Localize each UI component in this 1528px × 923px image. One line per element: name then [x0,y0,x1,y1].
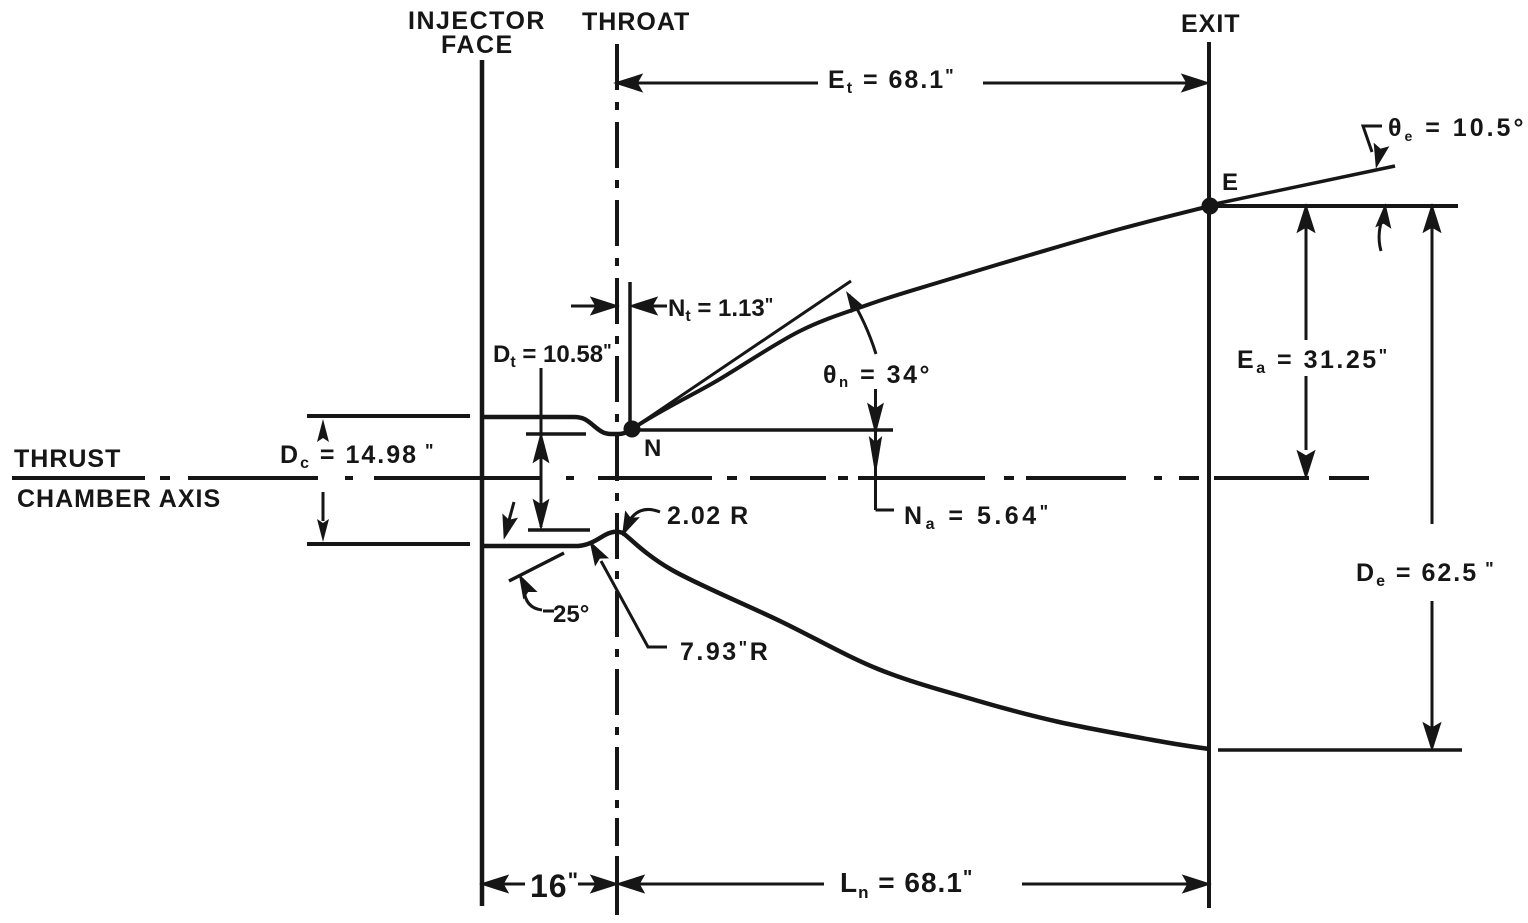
exit bottom extension line [1218,748,1462,752]
dimension 16" [484,877,615,891]
2.02R leader [619,509,660,534]
dimension D_e = 62.5" [1425,208,1439,747]
7.93"R leader [587,542,667,647]
dimension D_c = 14.98" [317,419,329,542]
dimension D_t = 10.58" [526,432,586,436]
svg-text:THROAT: THROAT [582,8,690,36]
theta_e leader [1363,126,1386,165]
throat axis line (dash-dot vertical) [615,44,619,915]
chamber bottom wall and bell contour [482,532,1209,749]
N horizontal reference line [632,428,893,432]
D_c bottom extension line [307,542,470,546]
svg-text:E: E [1222,169,1238,196]
exit plane horizontal line [1210,204,1458,208]
theta_n angle arc [849,295,876,354]
D_c top extension line [307,414,470,418]
25 degree wall arrow [500,502,515,536]
dimension N_t = 1.13" [571,299,667,313]
svg-text:FACE: FACE [441,31,514,59]
injector face line [480,60,485,906]
25 degree tangent line [509,553,564,581]
bell top contour from N to E [632,206,1210,429]
theta_e angle arrow [1378,208,1390,251]
25 degree angle arc leader [516,575,554,611]
node N vertical line [628,282,632,424]
node E dot [1202,198,1219,215]
theta_e inclined line [1210,166,1395,205]
svg-text:Nt = 1.13": Nt = 1.13" [668,295,773,325]
thrust chamber axis centerline (dash-dot horizontal) [12,476,1369,480]
svg-text:EXIT: EXIT [1181,10,1241,38]
svg-text:2.02 R: 2.02 R [667,502,750,530]
34 degree tangent line [632,281,851,429]
dimension E_t = 68.1" [618,76,1206,90]
svg-text:7.93"R: 7.93"R [680,638,770,666]
dimension E_a = 31.25" [1299,208,1313,475]
svg-text:25°: 25° [553,601,589,628]
dimension L_n = 68.1" [620,877,1207,891]
label INJECTOR FACE [408,7,546,59]
dimension N_a = 5.64" leader [870,389,895,510]
svg-text:CHAMBER AXIS: CHAMBER AXIS [17,485,221,513]
node N dot [624,421,641,438]
svg-text:N: N [644,435,661,462]
exit line [1207,42,1211,908]
label THRUST CHAMBER AXIS [14,445,221,513]
chamber top wall and converging contour [482,417,632,434]
svg-text:THRUST: THRUST [14,445,121,473]
